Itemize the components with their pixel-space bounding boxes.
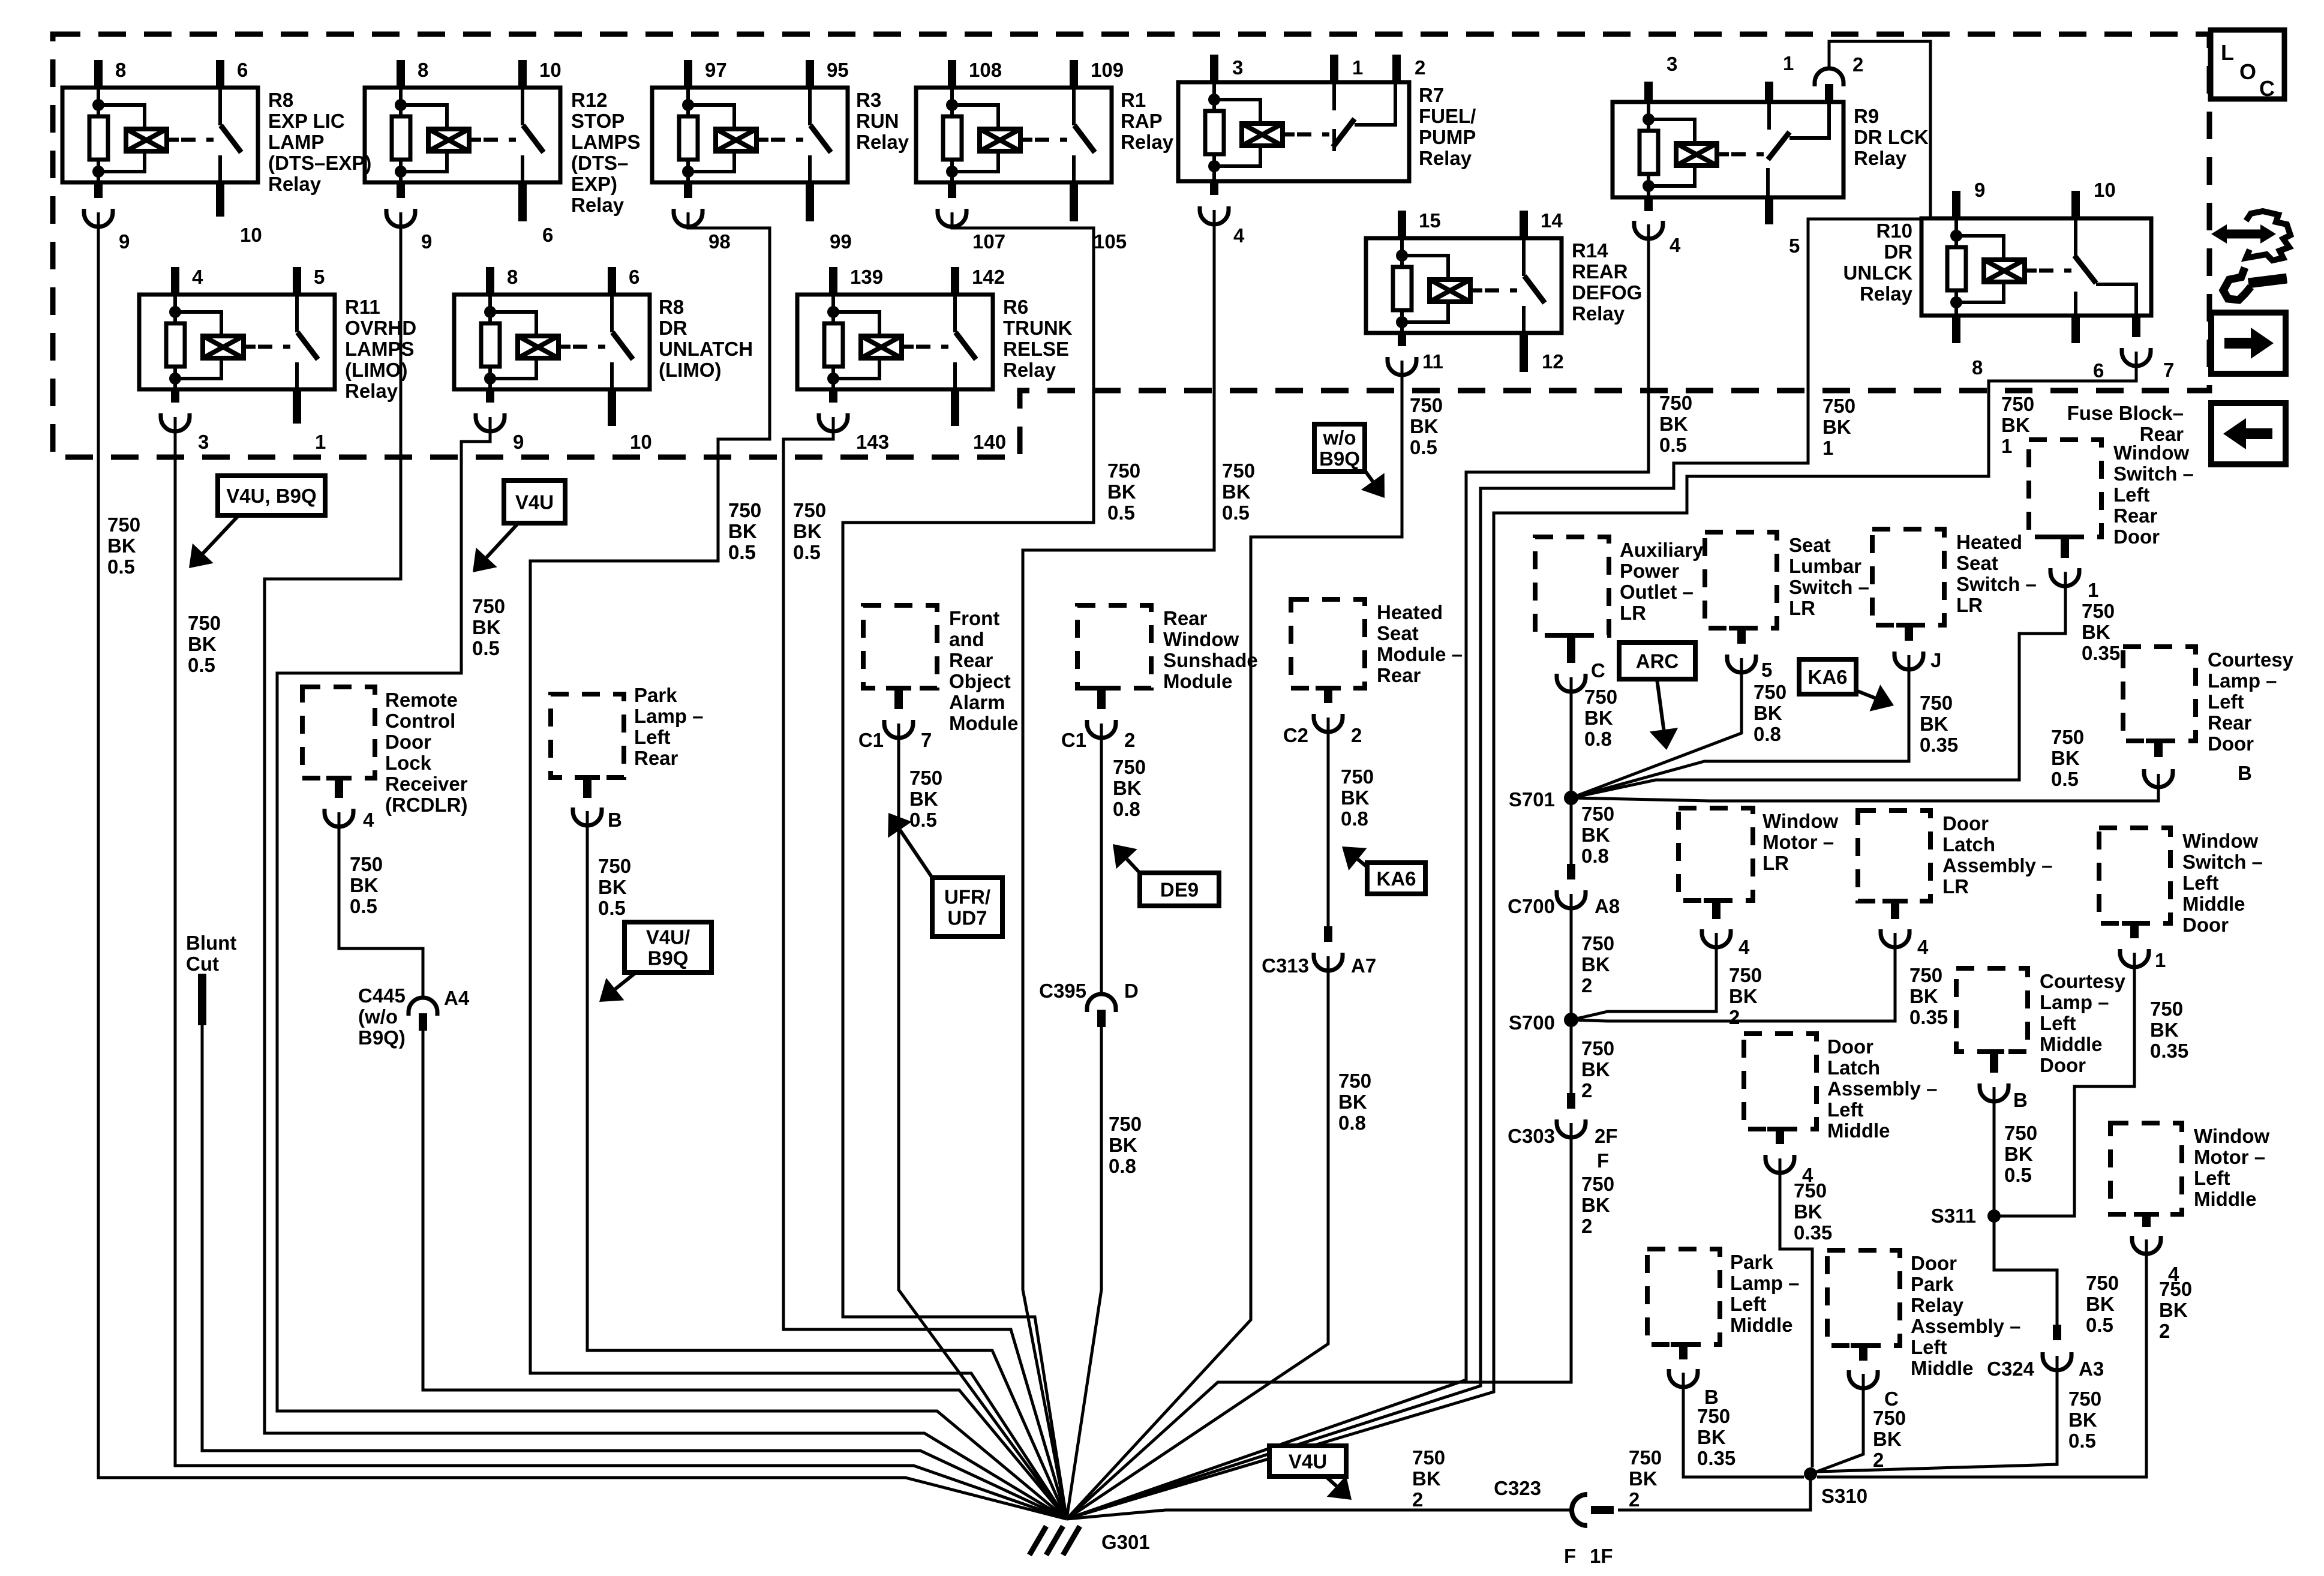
svg-text:750: 750	[1222, 460, 1255, 482]
svg-text:Left: Left	[1911, 1336, 1947, 1358]
svg-text:Relay: Relay	[571, 194, 624, 216]
svg-text:750: 750	[1697, 1405, 1730, 1427]
module Heated Seat Switch - LR	[1872, 529, 1944, 625]
svg-text:A3: A3	[2079, 1358, 2104, 1380]
svg-text:ARC: ARC	[1636, 650, 1679, 673]
svg-text:Latch: Latch	[1827, 1056, 1880, 1079]
svg-text:6: 6	[542, 224, 553, 246]
svg-text:Middle: Middle	[2194, 1188, 2257, 1210]
svg-text:BK: BK	[1584, 707, 1613, 729]
module Courtesy Lamp - Left Rear Door	[2123, 647, 2196, 741]
svg-text:750: 750	[1920, 692, 1953, 714]
WS-LMD pin 1	[2122, 921, 2147, 926]
svg-text:Relay: Relay	[345, 380, 398, 402]
svg-text:105: 105	[1094, 230, 1127, 253]
svg-text:7: 7	[921, 729, 932, 751]
wire WS-LMD 1 to S311	[1994, 953, 2134, 1216]
svg-text:1: 1	[315, 431, 326, 453]
svg-text:0.35: 0.35	[1909, 1006, 1948, 1028]
svg-text:6: 6	[237, 59, 248, 81]
svg-text:Door: Door	[2182, 914, 2229, 936]
svg-text:750: 750	[1410, 394, 1443, 416]
svg-text:Front: Front	[949, 607, 999, 629]
svg-text:0.8: 0.8	[1584, 728, 1612, 750]
relay R10 DR UNLCK	[1921, 218, 2151, 316]
wire DPRA C to S310	[1810, 1374, 1863, 1474]
svg-text:Relay: Relay	[1854, 147, 1907, 169]
svg-text:KA6: KA6	[1807, 666, 1847, 688]
svg-text:O: O	[2239, 59, 2256, 84]
svg-text:Window: Window	[2182, 830, 2258, 852]
svg-text:4: 4	[192, 266, 203, 288]
svg-text:9: 9	[421, 230, 432, 253]
svg-text:1: 1	[1352, 56, 1363, 79]
svg-text:Relay: Relay	[1911, 1294, 1964, 1316]
connector C700 A8	[1567, 864, 1575, 879]
svg-text:Relay: Relay	[1419, 147, 1472, 169]
svg-text:0.8: 0.8	[1113, 798, 1140, 820]
svg-text:9: 9	[119, 230, 130, 253]
svg-text:(LIMO): (LIMO)	[345, 359, 407, 381]
svg-text:LR: LR	[1762, 852, 1789, 874]
svg-text:BK: BK	[1909, 985, 1938, 1007]
Park Lamp LR pin B	[575, 775, 600, 780]
svg-text:750: 750	[1729, 964, 1762, 986]
wire S701 to C700	[1570, 798, 1573, 864]
svg-text:11: 11	[1422, 350, 1443, 373]
svg-text:97: 97	[705, 59, 727, 81]
svg-text:0.35: 0.35	[1920, 734, 1958, 756]
wire CL-LMD B to S311	[1993, 1087, 1996, 1216]
svg-text:V4U/: V4U/	[646, 926, 690, 948]
wire R3 pin98 to G301	[530, 212, 1067, 1519]
svg-text:PUMP: PUMP	[1419, 126, 1476, 148]
svg-text:Heated: Heated	[1377, 601, 1443, 623]
svg-text:1: 1	[1783, 52, 1794, 74]
wire CL-LRD B to S701	[1571, 774, 2158, 801]
svg-text:750: 750	[1341, 766, 1374, 788]
svg-text:9: 9	[513, 431, 524, 453]
wire Sunshade 2 to C395	[1100, 724, 1103, 992]
svg-text:Lamp –: Lamp –	[2208, 670, 2277, 692]
svg-text:2: 2	[1415, 56, 1425, 79]
svg-text:Lamp –: Lamp –	[1730, 1272, 1800, 1294]
splice S701	[1564, 791, 1578, 805]
svg-text:95: 95	[827, 59, 849, 81]
svg-text:Module: Module	[949, 712, 1018, 734]
wire R9 pin2 via fuse block to bundle	[1067, 41, 1930, 1519]
connector C324 A3	[2053, 1325, 2061, 1340]
svg-text:0.35: 0.35	[2150, 1040, 2188, 1062]
svg-text:R11: R11	[345, 296, 380, 318]
Sunshade pin C1-2	[1089, 686, 1114, 691]
svg-text:C395: C395	[1039, 980, 1086, 1002]
Seat Lumbar pin 5	[1729, 626, 1754, 631]
svg-text:750: 750	[1581, 932, 1614, 954]
svg-text:0.8: 0.8	[1341, 807, 1368, 830]
svg-text:750: 750	[1753, 681, 1786, 703]
svg-text:Control: Control	[385, 710, 455, 732]
svg-text:Door: Door	[1911, 1252, 1957, 1274]
svg-text:2: 2	[1124, 729, 1135, 751]
svg-text:BK: BK	[2086, 1293, 2115, 1315]
svg-text:R8: R8	[268, 89, 293, 111]
svg-text:3: 3	[1232, 56, 1243, 79]
svg-text:Left: Left	[1827, 1098, 1864, 1121]
svg-text:C: C	[2259, 76, 2275, 101]
svg-text:BK: BK	[2159, 1299, 2188, 1321]
CL-LMD pin B	[1979, 1049, 2004, 1054]
svg-text:LAMPS: LAMPS	[345, 338, 415, 360]
svg-text:Window: Window	[2113, 442, 2189, 464]
svg-text:750: 750	[1584, 686, 1617, 708]
svg-text:Left: Left	[2194, 1167, 2230, 1189]
svg-text:750: 750	[1338, 1070, 1371, 1092]
svg-text:Middle: Middle	[1730, 1314, 1793, 1336]
wire R12 pin9 to G301	[265, 212, 1067, 1519]
APO pin C	[1559, 633, 1584, 638]
R9 switch	[1767, 102, 1771, 130]
svg-text:3: 3	[1667, 53, 1677, 75]
svg-text:BK: BK	[1753, 702, 1782, 724]
svg-text:C700: C700	[1508, 895, 1555, 917]
svg-text:BK: BK	[2150, 1019, 2179, 1041]
svg-text:Park: Park	[634, 684, 677, 706]
svg-text:BK: BK	[2001, 414, 2030, 436]
module Window Motor - LR	[1679, 808, 1753, 900]
connector C303 2F	[1567, 1093, 1575, 1109]
svg-text:750: 750	[1822, 395, 1855, 417]
wire C303 F to G301	[1067, 1123, 1571, 1519]
svg-text:Power: Power	[1620, 560, 1679, 582]
svg-text:Middle: Middle	[2040, 1033, 2103, 1055]
svg-text:FUEL/: FUEL/	[1419, 105, 1476, 127]
svg-text:750: 750	[472, 595, 505, 617]
svg-text:BK: BK	[1873, 1428, 1902, 1450]
svg-text:Left: Left	[2182, 872, 2219, 894]
relay R1 RAP	[916, 88, 1112, 182]
svg-text:BK: BK	[793, 520, 822, 542]
svg-text:750: 750	[1629, 1446, 1662, 1469]
svg-text:V4U: V4U	[1289, 1451, 1327, 1473]
wire WS-LRD 1 to S701	[1571, 572, 2065, 798]
svg-text:C2: C2	[1283, 724, 1308, 746]
module Park Lamp - Left Rear	[551, 694, 624, 778]
svg-text:Park: Park	[1730, 1251, 1773, 1273]
forward arrow box	[2211, 313, 2286, 374]
svg-text:Heated: Heated	[1956, 531, 2022, 553]
svg-text:2: 2	[1581, 1079, 1592, 1101]
svg-text:Relay: Relay	[268, 173, 322, 195]
relay R7 FUEL/PUMP	[1178, 82, 1409, 181]
svg-text:750: 750	[1107, 460, 1140, 482]
svg-text:0.8: 0.8	[1581, 845, 1609, 867]
svg-text:C324: C324	[1987, 1358, 2035, 1380]
svg-text:J: J	[1930, 649, 1941, 671]
svg-text:Lamp –: Lamp –	[634, 705, 704, 727]
svg-text:B9Q: B9Q	[1319, 448, 1360, 470]
svg-text:2: 2	[1581, 1215, 1592, 1237]
svg-text:0.8: 0.8	[1109, 1155, 1136, 1177]
svg-text:BK: BK	[1697, 1426, 1726, 1448]
LOC legend box	[2211, 30, 2284, 99]
svg-text:BK: BK	[1659, 413, 1688, 435]
svg-text:8: 8	[115, 59, 126, 81]
fuse block Rear dashed outline	[53, 34, 2209, 457]
svg-text:6: 6	[2093, 359, 2104, 382]
wrench icon	[2223, 268, 2251, 300]
svg-text:V4U, B9Q: V4U, B9Q	[226, 485, 316, 507]
svg-text:750: 750	[2150, 998, 2183, 1020]
svg-text:(LIMO): (LIMO)	[659, 359, 721, 381]
DLA-LM pin 4	[1767, 1127, 1792, 1131]
svg-text:143: 143	[856, 431, 889, 453]
svg-text:BK: BK	[2082, 621, 2110, 643]
svg-text:BK: BK	[107, 535, 136, 557]
wire Seat Lumbar 5 to S701	[1571, 658, 1742, 798]
svg-text:UFR/: UFR/	[944, 886, 990, 908]
svg-text:Rear: Rear	[2208, 712, 2252, 734]
wire R8 pin9 to G301	[98, 212, 1067, 1519]
svg-text:750: 750	[1659, 392, 1692, 414]
svg-text:142: 142	[972, 266, 1005, 288]
splice S700	[1564, 1013, 1578, 1027]
module Front and Rear Object Alarm Module	[863, 605, 937, 688]
wire DLA-LR 4 to S700	[1571, 933, 1895, 1021]
splice S310	[1804, 1467, 1817, 1481]
wire R8-DR-UNLATCH pin9 to G301	[277, 417, 1067, 1519]
svg-text:5: 5	[1789, 235, 1800, 257]
svg-text:14: 14	[1541, 209, 1563, 232]
svg-text:F: F	[1597, 1149, 1609, 1172]
svg-text:0.5: 0.5	[472, 637, 500, 659]
relay R3 RUN	[652, 88, 848, 182]
module Auxiliary Power Outlet - LR	[1535, 537, 1609, 635]
svg-text:15: 15	[1419, 209, 1441, 232]
relay R11 OVRHD LAMPS (LIMO)	[139, 295, 335, 389]
svg-text:BK: BK	[1581, 953, 1610, 975]
callout KA6 (heated seat switch)	[1799, 659, 1856, 694]
svg-text:LAMPS: LAMPS	[571, 131, 641, 153]
svg-text:139: 139	[850, 266, 883, 288]
svg-text:Middle: Middle	[1827, 1119, 1890, 1142]
svg-text:Lumbar: Lumbar	[1789, 555, 1861, 577]
module Seat Lumbar Switch - LR	[1705, 532, 1777, 628]
svg-text:8: 8	[1972, 356, 1983, 379]
svg-text:10: 10	[2094, 179, 2116, 201]
svg-text:10: 10	[240, 224, 262, 246]
svg-text:Module –: Module –	[1377, 643, 1463, 665]
svg-text:Sunshade: Sunshade	[1163, 649, 1258, 671]
wire WM-LR 4 to S700	[1571, 933, 1716, 1020]
svg-text:Object: Object	[949, 670, 1011, 692]
svg-text:Switch –: Switch –	[2113, 463, 2194, 485]
svg-text:OVRHD: OVRHD	[345, 317, 416, 339]
svg-text:Cut: Cut	[186, 953, 219, 975]
svg-text:Blunt: Blunt	[186, 932, 236, 954]
svg-text:C303: C303	[1508, 1125, 1555, 1147]
svg-text:BK: BK	[1222, 481, 1251, 503]
svg-text:R12: R12	[571, 89, 608, 111]
svg-text:Seat: Seat	[1956, 552, 1998, 574]
svg-text:BK: BK	[2051, 747, 2080, 769]
svg-text:750: 750	[350, 853, 383, 875]
svg-text:Left: Left	[2040, 1012, 2076, 1034]
svg-text:2: 2	[1412, 1488, 1423, 1511]
wire R14 pin11 to G301	[1067, 361, 1402, 1519]
svg-text:750: 750	[107, 514, 140, 536]
back arrow box	[2211, 403, 2286, 464]
svg-text:A8: A8	[1595, 895, 1620, 917]
wire R9 pin4 to bundle to G301	[1067, 224, 1649, 1519]
svg-text:Rear: Rear	[1377, 664, 1421, 686]
svg-text:(RCDLR): (RCDLR)	[385, 794, 467, 816]
svg-text:LR: LR	[1942, 875, 1969, 897]
svg-text:G301: G301	[1101, 1531, 1150, 1553]
relay R9 DR LCK	[1613, 102, 1843, 197]
svg-text:2: 2	[2159, 1320, 2170, 1342]
svg-text:BK: BK	[1341, 787, 1370, 809]
callout KA6 (heated seat module)	[1367, 863, 1425, 894]
svg-text:Middle: Middle	[2182, 893, 2245, 915]
svg-text:Door: Door	[385, 731, 431, 753]
svg-text:BK: BK	[1581, 1058, 1610, 1080]
svg-text:2F: 2F	[1595, 1125, 1618, 1147]
module Rear Window Sunshade Module	[1077, 605, 1151, 688]
svg-text:750: 750	[1581, 803, 1614, 825]
svg-text:D: D	[1124, 980, 1139, 1002]
connector C445 (w/o B9Q) A4	[409, 998, 437, 1016]
relay R6 TRUNK RELSE	[797, 295, 993, 389]
svg-text:108: 108	[969, 59, 1002, 81]
svg-text:99: 99	[830, 230, 852, 253]
svg-text:8: 8	[507, 266, 518, 288]
module Courtesy Lamp - Left Middle Door	[1956, 968, 2028, 1052]
svg-text:F: F	[1564, 1545, 1576, 1567]
svg-text:BK: BK	[1109, 1134, 1137, 1156]
svg-text:98: 98	[708, 230, 731, 253]
svg-text:10: 10	[539, 59, 562, 81]
svg-text:DEFOG: DEFOG	[1572, 281, 1642, 304]
svg-text:Door: Door	[1827, 1035, 1873, 1058]
svg-text:Outlet –: Outlet –	[1620, 581, 1694, 603]
svg-text:107: 107	[972, 230, 1005, 253]
svg-text:4: 4	[1917, 936, 1929, 958]
svg-text:BK: BK	[1581, 1194, 1610, 1216]
wire C323 to G301	[1067, 1510, 1572, 1519]
module Window Switch - Left Middle Door	[2099, 828, 2170, 923]
callout V4U (ground run)	[1269, 1446, 1346, 1476]
svg-text:Window: Window	[2194, 1125, 2269, 1147]
module Window Motor - Left Middle	[2110, 1123, 2182, 1214]
R9 pin2 connector	[1825, 84, 1833, 102]
svg-text:750: 750	[2159, 1278, 2192, 1300]
wire R11 pin3 to G301	[175, 417, 1067, 1519]
wire R10 pin7 to bundle to G301	[1067, 352, 2136, 1519]
svg-text:5: 5	[314, 266, 325, 288]
svg-text:Window: Window	[1163, 628, 1239, 650]
svg-text:Seat: Seat	[1789, 534, 1831, 556]
CL-LRD pin B	[2146, 739, 2171, 743]
svg-text:750: 750	[909, 767, 942, 789]
svg-text:REAR: REAR	[1572, 260, 1628, 283]
svg-text:DE9: DE9	[1160, 879, 1199, 901]
svg-text:0.5: 0.5	[188, 654, 215, 676]
svg-text:750: 750	[2082, 600, 2115, 622]
svg-text:BK: BK	[1410, 415, 1439, 437]
svg-text:Courtesy: Courtesy	[2040, 970, 2126, 992]
svg-text:BK: BK	[350, 874, 379, 896]
callout V4U, B9Q	[218, 476, 325, 515]
svg-text:Switch –: Switch –	[2182, 851, 2263, 873]
svg-text:8: 8	[418, 59, 428, 81]
svg-text:4: 4	[1739, 936, 1750, 958]
svg-text:2: 2	[1873, 1449, 1884, 1471]
svg-text:0.5: 0.5	[909, 809, 937, 831]
svg-text:BK: BK	[1107, 481, 1136, 503]
svg-text:(DTS–: (DTS–	[571, 152, 628, 174]
ground G301	[1029, 1526, 1046, 1555]
wire R1 pin107 to G301	[843, 212, 1094, 1519]
svg-text:10: 10	[630, 431, 652, 453]
callout V4U	[504, 481, 565, 523]
svg-text:750: 750	[188, 612, 221, 634]
Heated Seat Switch pin J	[1896, 623, 1921, 628]
svg-text:1: 1	[2155, 949, 2166, 971]
wire HSS J to S701	[1571, 655, 1909, 798]
svg-text:Rear: Rear	[1163, 607, 1208, 629]
svg-text:Window: Window	[1762, 810, 1838, 832]
module Door Latch Assembly - LR	[1858, 810, 1930, 901]
svg-text:LAMP: LAMP	[268, 131, 325, 153]
svg-text:S700: S700	[1509, 1011, 1555, 1034]
svg-text:BK: BK	[188, 633, 217, 655]
svg-text:Rear: Rear	[2113, 505, 2158, 527]
svg-text:Fuse Block–: Fuse Block–	[2067, 402, 2184, 424]
svg-text:B: B	[608, 809, 622, 831]
svg-text:750: 750	[598, 855, 631, 877]
svg-text:UNLCK: UNLCK	[1843, 262, 1913, 284]
svg-text:R10: R10	[1876, 220, 1912, 242]
svg-text:0.5: 0.5	[2004, 1164, 2032, 1186]
svg-text:1: 1	[2088, 579, 2098, 601]
svg-text:750: 750	[793, 499, 826, 521]
callout ARC	[1619, 643, 1695, 679]
svg-text:Motor –: Motor –	[2194, 1146, 2265, 1168]
svg-text:750: 750	[1109, 1113, 1142, 1135]
svg-text:R8: R8	[659, 296, 684, 318]
HSM pin C2-2	[1316, 686, 1341, 691]
callout DE9	[1140, 873, 1219, 906]
svg-text:R14: R14	[1572, 239, 1608, 262]
svg-text:1: 1	[1822, 437, 1833, 459]
svg-text:Latch: Latch	[1942, 833, 1995, 855]
svg-text:RAP: RAP	[1121, 110, 1163, 132]
svg-text:12: 12	[1542, 350, 1564, 373]
wire APO C to S701	[1570, 677, 1573, 798]
FROAM pin C1-7	[886, 686, 911, 691]
svg-text:Auxiliary: Auxiliary	[1620, 539, 1704, 561]
svg-text:BK: BK	[1338, 1091, 1367, 1113]
svg-text:RUN: RUN	[856, 110, 899, 132]
svg-text:0.5: 0.5	[598, 897, 626, 919]
svg-text:BK: BK	[1581, 824, 1610, 846]
wire PL-LM B to S310	[1683, 1373, 1804, 1477]
svg-text:Alarm: Alarm	[949, 691, 1005, 713]
svg-text:750: 750	[1113, 756, 1146, 778]
svg-text:0.5: 0.5	[793, 541, 821, 563]
svg-text:Assembly –: Assembly –	[1911, 1315, 2020, 1337]
